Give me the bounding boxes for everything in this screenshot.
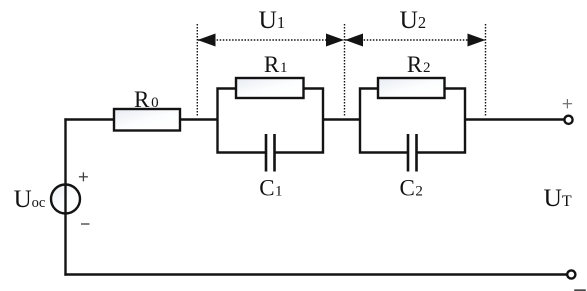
- voltage source Uoc circle: [51, 185, 80, 214]
- label - of source: [81, 223, 90, 225]
- resistor R2: [378, 78, 445, 98]
- dashed extension line at node A (x=197): [196, 24, 198, 117]
- svg-text:R2: R2: [407, 52, 431, 77]
- wire top main horizontal (left section through R0 to node A): [64, 118, 217, 120]
- resistor R0: [114, 109, 180, 131]
- capacitor C2: [408, 134, 417, 172]
- dashed extension line at node B (x=344.5): [344, 24, 346, 117]
- terminal + (top right): [564, 116, 572, 124]
- svg-text:UT: UT: [544, 183, 572, 212]
- svg-text:C1: C1: [259, 176, 282, 201]
- RC loop 1 outline (with capacitor gap in bottom edge): [218, 89, 324, 153]
- label + of source: [79, 172, 88, 181]
- arrowhead U1 right: [326, 34, 344, 47]
- dashed extension line at node C (x=485.5): [485, 24, 487, 117]
- svg-text:U1: U1: [259, 5, 286, 34]
- arrowhead U1 left: [198, 34, 216, 47]
- svg-text:U2: U2: [400, 5, 427, 34]
- wire between RC loop 1 and RC loop 2: [323, 118, 360, 120]
- wire bottom rail: [64, 273, 567, 275]
- svg-text:R0: R0: [134, 87, 159, 112]
- label + of terminal: [563, 99, 572, 108]
- wire from RC loop 2 to positive terminal: [465, 118, 564, 120]
- terminal - (bottom right): [567, 270, 575, 278]
- RC loop 2 outline (with capacitor gap in bottom edge): [360, 89, 465, 153]
- arrowhead U2 left: [345, 34, 363, 47]
- resistor R1: [236, 78, 304, 98]
- svg-text:Uoc: Uoc: [14, 186, 46, 213]
- capacitor C1: [266, 134, 275, 172]
- svg-text:R1: R1: [264, 52, 288, 77]
- label - of terminal (clipped at image edge): [574, 289, 586, 291]
- dimension line U2 (dotted): [345, 39, 485, 41]
- arrowhead U2 right: [468, 34, 486, 47]
- wire left rail (through source): [64, 118, 66, 275]
- dimension line U1 (dotted): [198, 39, 344, 41]
- svg-text:C2: C2: [400, 176, 423, 201]
